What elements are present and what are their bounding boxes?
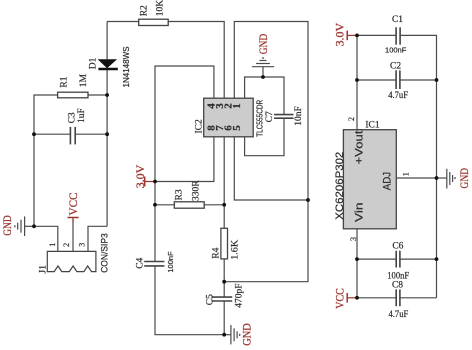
svg-text:IC2: IC2: [195, 119, 205, 134]
wire C8 right: [400, 297, 437, 299]
wire C3 left: [34, 133, 70, 135]
svg-text:ADJ: ADJ: [381, 172, 393, 191]
svg-text:IC1: IC1: [365, 120, 380, 130]
svg-text:10nF: 10nF: [294, 106, 304, 126]
capacitor C4: [135, 251, 175, 273]
wire D1 anode: [106, 22, 108, 60]
IC2 TLC555CDR: [204, 98, 254, 137]
capacitor C7: [265, 106, 304, 126]
ground bottom middle: [224, 325, 240, 344]
svg-text:C4: C4: [135, 257, 145, 268]
svg-text:3: 3: [78, 243, 87, 247]
wire D1 cathode down: [106, 69, 108, 226]
svg-text:Vin: Vin: [353, 203, 365, 223]
svg-text:470pF: 470pF: [235, 284, 245, 308]
svg-text:C7: C7: [265, 111, 275, 122]
svg-text:GND: GND: [256, 34, 270, 55]
wire R4 to C5: [223, 259, 225, 297]
wire C2 left: [357, 79, 396, 81]
resistor R4: [212, 228, 241, 259]
capacitor C8: [389, 280, 409, 320]
svg-text:GND: GND: [239, 323, 253, 346]
resistor R2: [139, 0, 169, 26]
svg-text:VCC: VCC: [332, 288, 346, 309]
svg-text:330R: 330R: [192, 180, 202, 201]
supply VCC right: [332, 288, 355, 309]
wire IC2 pin 7 to R4: [223, 137, 225, 229]
capacitor C1: [385, 15, 407, 54]
svg-text:GND: GND: [0, 215, 14, 236]
resistor R1: [58, 73, 89, 97]
diode D1: [89, 47, 132, 88]
svg-text:2: 2: [62, 243, 71, 247]
svg-text:10K: 10K: [156, 0, 166, 16]
wire IC2 pin 8 to 3.0V node: [155, 137, 214, 182]
svg-text:R1: R1: [60, 76, 70, 87]
wire C8 left: [357, 297, 396, 299]
IC1 XC6206P302: [334, 117, 411, 241]
wire IC2 pin 2 to right vertical: [224, 22, 308, 282]
svg-text:1: 1: [231, 103, 243, 109]
connector J1: [38, 233, 109, 273]
svg-text:GND: GND: [457, 168, 471, 189]
wire R3 left: [155, 204, 174, 206]
ground at J1: [15, 216, 34, 236]
svg-text:4.7uF: 4.7uF: [388, 91, 408, 101]
wire R2 left: [107, 21, 139, 23]
ground at IC1 ADJ: [437, 169, 456, 189]
wire GND to J1 pin 1: [34, 226, 58, 251]
wire R3 right: [204, 204, 224, 206]
svg-text:D1: D1: [89, 57, 99, 69]
svg-text:R3: R3: [175, 189, 185, 200]
svg-text:3.0V: 3.0V: [332, 23, 346, 47]
wire C1 right down rail: [400, 35, 436, 297]
svg-text:J1: J1: [38, 265, 48, 274]
svg-text:3: 3: [349, 237, 358, 241]
svg-text:C2: C2: [390, 62, 401, 72]
wire IC2 pin 6: [234, 137, 308, 200]
svg-text:1M: 1M: [79, 73, 89, 87]
capacitor C3: [68, 108, 87, 144]
wire C5 bottom: [223, 301, 225, 334]
svg-text:1: 1: [48, 243, 57, 247]
supply 3.0V middle: [133, 164, 153, 188]
wire C6 right: [400, 258, 437, 260]
svg-text:C5: C5: [205, 294, 215, 305]
supply VCC at J1 pin 2: [66, 193, 80, 223]
wire R1 right: [88, 94, 107, 96]
svg-text:100nF: 100nF: [166, 251, 175, 273]
wire C2 right: [400, 79, 437, 81]
svg-text:1.6K: 1.6K: [230, 240, 240, 260]
capacitor C2: [388, 62, 408, 101]
wire IC2 pin 5 to C7: [245, 119, 284, 156]
svg-text:100nF: 100nF: [385, 45, 407, 54]
svg-text:2: 2: [347, 117, 356, 121]
svg-text:C8: C8: [392, 280, 403, 290]
IC2 pin numbers: [205, 103, 243, 131]
wire 3.0V node down: [154, 182, 156, 262]
svg-text:+Vout: +Vout: [353, 131, 365, 165]
svg-text:XC6206P302: XC6206P302: [334, 152, 346, 220]
svg-text:C1: C1: [392, 15, 403, 25]
ground above C7: [252, 58, 274, 77]
svg-text:1uF: 1uF: [77, 108, 87, 123]
wire R1 left down: [34, 95, 58, 226]
svg-text:R2: R2: [140, 5, 150, 16]
resistor R3: [174, 180, 204, 208]
capacitor C5: [205, 284, 244, 308]
svg-text:C6: C6: [392, 242, 403, 252]
wire J1 pin 2: [72, 219, 74, 251]
svg-text:4.7uF: 4.7uF: [389, 310, 409, 320]
wire loop to IC2 pin 4: [155, 66, 214, 182]
wire C3 right: [76, 133, 108, 135]
svg-text:1: 1: [402, 172, 411, 176]
supply 3.0V right: [332, 23, 355, 47]
svg-text:TLC555CDR: TLC555CDR: [255, 100, 264, 137]
svg-text:CON/SIP3: CON/SIP3: [100, 233, 110, 273]
svg-text:5: 5: [231, 125, 243, 131]
wire IC1 pin 1: [396, 177, 436, 179]
wire C4 bottom to gnd row: [155, 266, 224, 334]
svg-text:1N4148WS: 1N4148WS: [122, 47, 131, 88]
svg-text:R4: R4: [212, 247, 222, 258]
svg-text:3.0V: 3.0V: [133, 164, 147, 188]
wire C7 to gnd node: [245, 77, 284, 115]
capacitor C6: [387, 242, 409, 282]
svg-text:VCC: VCC: [66, 193, 80, 216]
wire C6 left: [357, 258, 396, 260]
wire 3.0V rail right: [357, 35, 396, 129]
wire IC1 pin 3 down: [356, 229, 358, 298]
wire to J1 pin 3: [88, 226, 107, 251]
wire R2 right to IC2 pin 3: [168, 22, 224, 99]
